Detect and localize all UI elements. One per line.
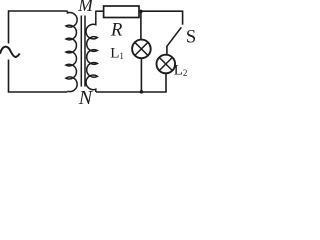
wire top-left loop <box>9 10 68 12</box>
wire secondary top to resistor <box>95 10 103 12</box>
svg-text:S: S <box>186 28 196 48</box>
svg-text:N: N <box>78 87 94 106</box>
wire switch to L2 <box>166 46 168 55</box>
junction dot bottom <box>140 90 144 94</box>
wire L2 bottom <box>165 73 167 92</box>
AC source ~ <box>0 47 20 57</box>
lamp L1 <box>132 40 151 59</box>
lamp L2 <box>157 55 176 74</box>
transformer core <box>80 16 82 87</box>
svg-text:M: M <box>77 0 94 15</box>
wire L1 branch top <box>140 11 142 40</box>
wire L1 bottom <box>140 58 142 92</box>
wire left vertical lower <box>8 60 10 93</box>
wire left vertical upper <box>8 10 10 43</box>
wire bottom right <box>96 91 167 93</box>
junction dot top <box>139 10 143 14</box>
resistor R <box>104 6 139 18</box>
svg-text:R: R <box>110 21 122 41</box>
svg-text:L1: L1 <box>110 45 124 61</box>
switch S blade <box>167 27 181 46</box>
wire right vertical to switch <box>182 11 184 25</box>
wire resistor to right corner <box>139 10 183 12</box>
svg-text:L2: L2 <box>174 62 188 78</box>
transformer primary coil <box>66 11 77 92</box>
transformer secondary coil <box>86 11 97 92</box>
wire bottom-left loop <box>8 91 68 93</box>
